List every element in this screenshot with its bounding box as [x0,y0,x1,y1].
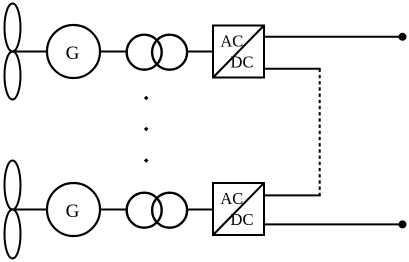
wire: dashed series DC link between U1 and U2 [319,69,321,196]
node: top DC bus terminal dot [399,33,407,41]
wire: WT1 hub to generator G1 [13,51,48,53]
wire: generator G1 to transformer T1 [100,51,127,53]
converter U1 AC/DC (top) [213,26,264,78]
wire: WT2 hub to generator G2 [13,209,48,211]
generator G2 (bottom) [47,183,100,236]
generator G1 (top) [47,25,100,78]
wire: U1 positive output to DC bus node [264,36,403,38]
svg-text:AC: AC [220,189,243,208]
ellipsis dots (more units implied) [144,96,149,163]
wind turbine blades WT1 (top unit) [5,4,21,100]
wire: U2 negative output to DC bus node [264,223,403,225]
svg-text:DC: DC [231,210,254,229]
wire: transformer T2 to converter U2 [187,209,213,211]
svg-text:G: G [66,43,80,64]
svg-text:G: G [66,201,80,222]
transformer T1 (top, two overlapping circles) [127,35,187,70]
wind turbine blades WT2 (bottom unit) [5,161,21,259]
node: bottom DC bus terminal dot [399,220,407,228]
wire: U1 negative output (solid segment) [264,68,321,70]
transformer T2 (bottom, two overlapping circles) [127,193,187,228]
wire: U2 positive output (solid segment to dashed link) [264,194,321,196]
converter U2 AC/DC (bottom) [213,183,264,235]
svg-text:AC: AC [220,31,243,50]
wire: generator G2 to transformer T2 [100,209,127,211]
svg-text:DC: DC [231,53,254,72]
wire: transformer T1 to converter U1 [187,51,213,53]
